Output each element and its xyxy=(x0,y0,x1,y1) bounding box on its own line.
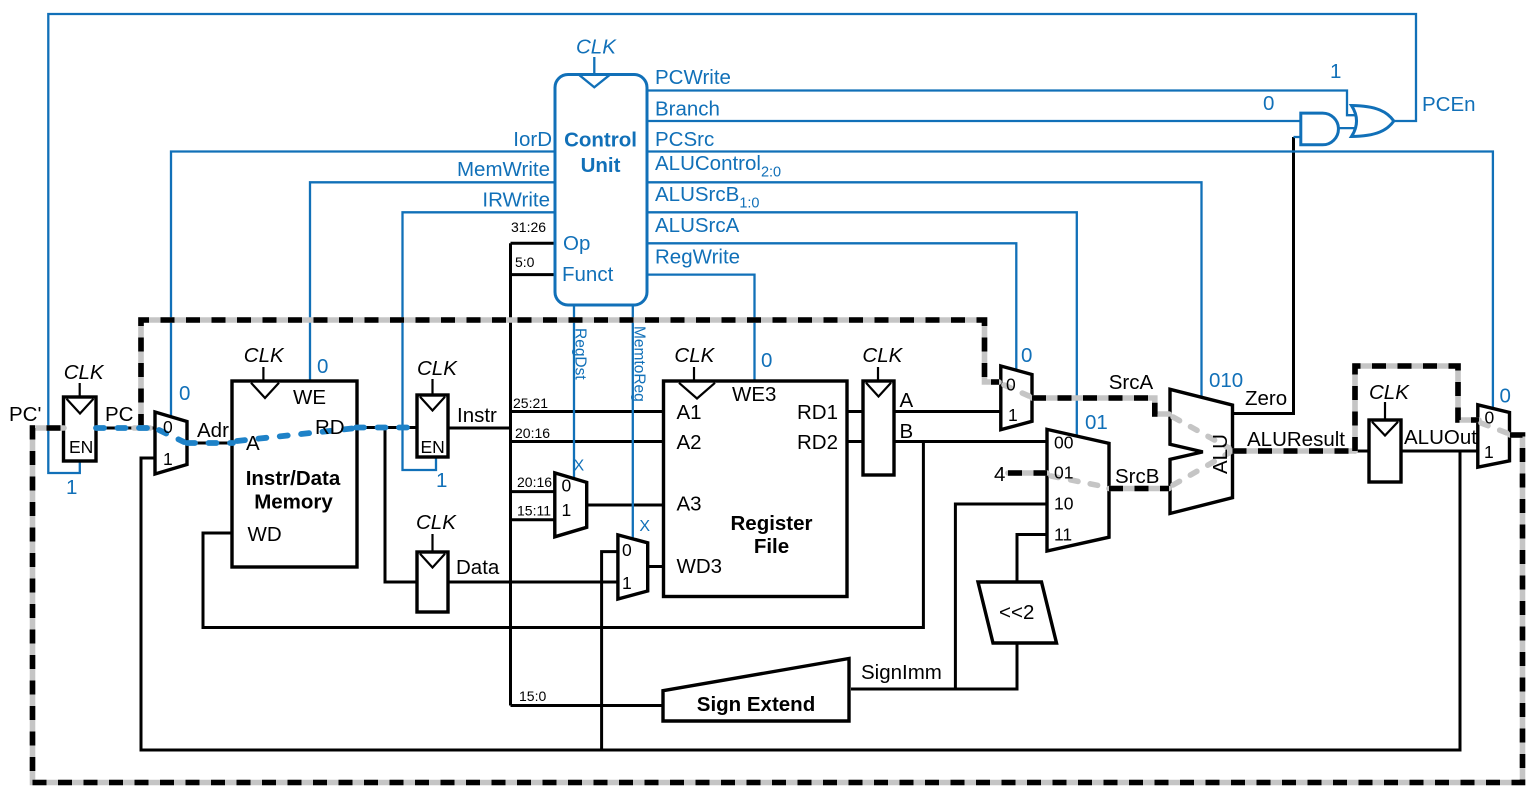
wire PCWrite xyxy=(645,91,1362,116)
register file xyxy=(664,381,848,597)
svg-text:0: 0 xyxy=(622,540,632,560)
svg-text:CLK: CLK xyxy=(862,344,903,367)
svg-text:11: 11 xyxy=(1054,525,1072,545)
svg-text:4: 4 xyxy=(994,463,1005,486)
mux IorD xyxy=(155,412,187,474)
svg-text:RegDst: RegDst xyxy=(572,328,589,380)
wire PCEn from OR gate to PC enable xyxy=(48,14,1416,473)
register Instr xyxy=(417,395,448,457)
junction blob on PC wire at dashed loop xyxy=(134,425,150,431)
wire highlighted SrcB mux internal xyxy=(1051,476,1106,487)
svg-text:IorD: IorD xyxy=(513,128,552,151)
svg-text:1: 1 xyxy=(562,500,572,520)
svg-text:0: 0 xyxy=(163,417,173,437)
register Data xyxy=(417,552,448,612)
svg-text:CLK: CLK xyxy=(674,344,715,367)
svg-text:20:16: 20:16 xyxy=(517,474,552,490)
register ALUOut xyxy=(1369,420,1401,482)
shifter <<2 xyxy=(978,582,1057,643)
svg-text:PC': PC' xyxy=(9,403,41,426)
svg-text:WD: WD xyxy=(248,523,282,546)
memory clock wedge xyxy=(251,383,279,398)
svg-text:1: 1 xyxy=(66,476,77,499)
svg-text:Sign Extend: Sign Extend xyxy=(697,693,815,716)
wire Zero to AND gate xyxy=(1231,137,1294,414)
svg-text:RegWrite: RegWrite xyxy=(655,246,740,269)
mux RegDst xyxy=(555,473,587,537)
wire fetch highlight memory internal xyxy=(237,429,352,442)
svg-text:SignImm: SignImm xyxy=(861,661,942,684)
register A/B xyxy=(863,381,894,475)
control unit clock wedge xyxy=(579,75,610,88)
svg-text:CLK: CLK xyxy=(244,344,285,367)
svg-text:WE: WE xyxy=(293,386,326,409)
wire 20:16 to RegDst mux in0 xyxy=(511,490,557,493)
wire B to SrcB mux in00 xyxy=(892,440,1049,443)
svg-text:ALUResult: ALUResult xyxy=(1247,428,1345,451)
wire AND out to OR xyxy=(1339,127,1365,129)
wire PC reg to IorD mux xyxy=(94,427,157,430)
wire fetch highlight RD to Instr reg xyxy=(356,425,416,431)
Data clock wedge xyxy=(420,554,445,568)
wire fetch highlight Adr xyxy=(187,440,233,446)
wire 20:16 to A2 xyxy=(511,440,666,443)
wire PCSrc select xyxy=(645,152,1493,410)
wire MemtoReg mux out to WD3 xyxy=(646,565,665,568)
PC CLK stub xyxy=(79,383,81,396)
svg-text:0: 0 xyxy=(1006,375,1016,395)
wire A to SrcA mux in1 xyxy=(892,410,1002,413)
svg-text:CLK: CLK xyxy=(416,511,457,534)
svg-text:0: 0 xyxy=(179,382,190,405)
svg-text:15:11: 15:11 xyxy=(517,503,551,519)
wire ALUOut feedback loop bottom xyxy=(141,451,1460,750)
svg-text:0: 0 xyxy=(761,349,772,372)
svg-text:1: 1 xyxy=(436,469,447,492)
svg-text:Instr: Instr xyxy=(457,404,497,427)
svg-text:1: 1 xyxy=(163,449,173,469)
wire highlighted loop PC to SrcA mux (gray under black dash) xyxy=(141,320,999,428)
wire highlighted SrcA mux internal xyxy=(1004,385,1029,396)
svg-text:CLK: CLK xyxy=(1369,381,1410,404)
control unit CLK stub xyxy=(593,57,595,74)
wire Funct stub 5:0 xyxy=(511,273,557,276)
svg-text:Control: Control xyxy=(564,129,637,152)
svg-text:31:26: 31:26 xyxy=(511,219,546,235)
wire Data reg out to MemtoReg mux in1 xyxy=(446,581,619,584)
svg-text:X: X xyxy=(639,518,650,535)
svg-text:A: A xyxy=(246,432,260,455)
wire Zero stub into AND xyxy=(1294,136,1304,138)
wire RD to Instr reg and junction to Data reg xyxy=(355,426,419,429)
svg-text:1: 1 xyxy=(622,573,632,593)
svg-text:B: B xyxy=(900,420,914,443)
wire ALUControl select xyxy=(645,182,1202,397)
wire junction down to Data register xyxy=(385,428,419,583)
svg-text:Memory: Memory xyxy=(254,491,333,514)
alu xyxy=(1170,389,1233,513)
register file CLK stub xyxy=(693,367,695,380)
svg-text:RD1: RD1 xyxy=(797,401,838,424)
wire SignImm junction up to in10 xyxy=(955,504,1049,689)
mux PCSrc xyxy=(1478,405,1510,467)
wire ALU to ALUOut reg xyxy=(1352,450,1371,453)
register file clock wedge xyxy=(679,383,715,399)
Data CLK stub xyxy=(431,534,433,551)
A/B clock wedge xyxy=(866,383,891,397)
mux SrcA xyxy=(1001,366,1032,430)
svg-text:01: 01 xyxy=(1054,463,1073,483)
wire MemtoReg select xyxy=(632,303,634,539)
or gate xyxy=(1352,106,1394,137)
svg-text:Register: Register xyxy=(730,512,812,535)
instr/data memory xyxy=(232,381,357,567)
svg-text:ALUSrcA: ALUSrcA xyxy=(655,214,740,237)
wire RD1 to A reg xyxy=(845,410,865,413)
svg-text:0: 0 xyxy=(1263,92,1274,115)
PC clock wedge xyxy=(67,399,94,414)
memory CLK stub xyxy=(262,367,264,380)
wire 15:11 to RegDst mux in1 xyxy=(511,518,557,521)
svg-text:Data: Data xyxy=(456,556,500,579)
wire fetch highlight IorD mux internal xyxy=(159,430,184,442)
svg-text:25:21: 25:21 xyxy=(513,395,548,411)
wire RD2 to B reg xyxy=(845,440,865,443)
wire Branch xyxy=(645,120,1302,122)
wire 25:21 to A1 xyxy=(511,410,666,413)
svg-text:A1: A1 xyxy=(677,401,702,424)
svg-text:MemWrite: MemWrite xyxy=(457,158,550,181)
svg-text:A: A xyxy=(900,389,914,412)
mux MemtoReg xyxy=(618,535,648,599)
wire highlighted PCSrc mux out to PC' loop xyxy=(33,428,1523,783)
svg-text:01: 01 xyxy=(1085,411,1108,434)
svg-text:Op: Op xyxy=(563,232,590,255)
svg-text:File: File xyxy=(754,535,789,558)
svg-text:Unit: Unit xyxy=(581,154,621,177)
svg-text:1: 1 xyxy=(1008,405,1018,425)
svg-text:EN: EN xyxy=(421,437,445,457)
svg-text:RD: RD xyxy=(315,416,345,439)
wire constant 4 to SrcB mux in01 xyxy=(1008,470,1047,476)
wire highlighted ALU internal top xyxy=(1173,417,1229,448)
wire instruction bus vertical xyxy=(509,243,512,705)
wire Instr reg out to instruction bus xyxy=(446,427,511,430)
wire RegDst mux out to A3 xyxy=(585,504,665,507)
ALUOut clock wedge xyxy=(1372,422,1398,436)
wire highlighted bypass around ALUOut reg xyxy=(1355,366,1479,451)
svg-text:Funct: Funct xyxy=(562,263,614,286)
svg-text:CLK: CLK xyxy=(417,357,458,380)
svg-text:CLK: CLK xyxy=(64,361,105,384)
svg-text:20:16: 20:16 xyxy=(515,425,550,441)
ALUOut CLK stub xyxy=(1384,402,1386,419)
wire highlighted SrcA to ALU xyxy=(1032,398,1169,414)
sign extend xyxy=(663,659,849,722)
svg-text:ALU: ALU xyxy=(1209,434,1232,474)
wire ALUSrcA select xyxy=(645,243,1016,371)
svg-text:1: 1 xyxy=(1484,442,1494,462)
svg-text:PCEn: PCEn xyxy=(1422,93,1476,116)
svg-text:5:0: 5:0 xyxy=(515,254,535,270)
and gate xyxy=(1301,113,1339,145)
svg-text:CLK: CLK xyxy=(576,36,617,59)
wire Op stub 31:26 xyxy=(511,242,557,245)
wire shifter out to SrcB mux in11 xyxy=(1017,535,1049,582)
wire B to memory WD xyxy=(203,442,923,628)
wire ALUSrcB select xyxy=(645,212,1077,437)
Instr clock wedge xyxy=(420,397,445,411)
svg-text:IRWrite: IRWrite xyxy=(482,189,550,212)
wire IorD select xyxy=(171,152,556,417)
wire RegWrite select xyxy=(645,275,755,382)
svg-text:SrcB: SrcB xyxy=(1115,465,1159,488)
svg-text:PCWrite: PCWrite xyxy=(655,66,731,89)
wire highlighted ALU internal bottom xyxy=(1173,453,1229,485)
svg-text:0: 0 xyxy=(1500,385,1511,408)
svg-text:MemtoReg: MemtoReg xyxy=(630,326,647,402)
svg-text:A2: A2 xyxy=(677,431,702,454)
svg-text:0: 0 xyxy=(317,355,328,378)
svg-text:RD2: RD2 xyxy=(797,431,838,454)
svg-text:0: 0 xyxy=(562,476,572,496)
svg-text:X: X xyxy=(574,458,585,475)
wire ALUOut reg out to PCSrc mux in1 xyxy=(1399,450,1479,453)
wire highlighted SrcB to ALU xyxy=(1109,486,1169,492)
wire Adr: mux out to memory A xyxy=(185,442,234,445)
svg-text:Instr/Data: Instr/Data xyxy=(246,467,341,490)
wire SignImm to SrcB mux in10 xyxy=(851,644,1017,689)
register PC xyxy=(64,397,97,461)
wire highlighted ALUResult xyxy=(1233,448,1356,454)
svg-text:Zero: Zero xyxy=(1245,387,1287,410)
svg-text:10: 10 xyxy=(1054,494,1074,514)
svg-text:010: 010 xyxy=(1209,369,1243,392)
svg-text:PC: PC xyxy=(105,403,134,426)
svg-text:EN: EN xyxy=(69,437,93,457)
wire highlighted PCSrc mux internal xyxy=(1481,423,1507,433)
svg-text:WE3: WE3 xyxy=(732,383,776,406)
A/B CLK stub xyxy=(877,367,879,380)
Instr CLK stub xyxy=(431,379,433,394)
svg-text:Adr: Adr xyxy=(197,419,229,442)
svg-text:SrcA: SrcA xyxy=(1109,371,1154,394)
svg-text:WD3: WD3 xyxy=(677,555,723,578)
svg-text:1: 1 xyxy=(1330,60,1341,83)
svg-text:0: 0 xyxy=(1021,344,1032,367)
mux SrcB xyxy=(1047,429,1109,551)
svg-text:0: 0 xyxy=(1485,408,1495,428)
wire fetch highlight PC to IorD mux (blue dash) xyxy=(96,425,154,431)
svg-text:00: 00 xyxy=(1054,433,1074,453)
svg-text:<<2: <<2 xyxy=(999,601,1034,624)
svg-text:A3: A3 xyxy=(677,493,702,516)
wire RegDst select xyxy=(573,303,575,479)
svg-text:15:0: 15:0 xyxy=(519,688,546,704)
svg-text:PCSrc: PCSrc xyxy=(655,128,714,151)
svg-text:Branch: Branch xyxy=(655,98,720,121)
wire MemWrite select xyxy=(310,182,556,382)
control unit U1 xyxy=(555,75,647,306)
wire 15:0 to Sign Extend xyxy=(511,704,666,707)
wire IRWrite select xyxy=(403,212,557,470)
svg-text:ALUOut: ALUOut xyxy=(1404,426,1477,449)
wire ALUOut feedback to MemtoReg mux in0 xyxy=(602,552,619,750)
